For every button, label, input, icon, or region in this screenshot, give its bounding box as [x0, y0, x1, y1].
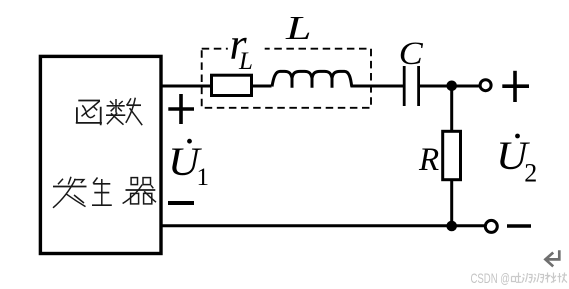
wire: R down to bottom rail	[450, 180, 453, 227]
svg-text:1: 1	[197, 164, 210, 191]
svg-text:L: L	[238, 48, 253, 75]
junction node (top)	[446, 81, 457, 92]
bottom output terminal	[485, 220, 497, 232]
resistor rL body	[212, 75, 252, 95]
dashed box around rL and L	[202, 49, 371, 108]
svg-text:CSDN @: CSDN @	[471, 271, 511, 286]
svg-text:R: R	[418, 142, 439, 178]
wire: inductor to capacitor	[351, 85, 404, 88]
svg-text:L: L	[285, 10, 312, 47]
function generator box	[40, 56, 161, 253]
svg-text:2: 2	[524, 159, 537, 188]
return arrow glyph	[545, 250, 559, 266]
plus sign (left, U1)	[168, 94, 194, 124]
capacitor C plates	[403, 66, 406, 106]
svg-text:C: C	[399, 36, 424, 72]
watermark CJK glyphs (lightweight approximations)	[512, 273, 568, 283]
label 函 (han)	[76, 101, 102, 126]
inductor L coil	[272, 71, 352, 87]
wire: box to r_L resistor (top)	[160, 85, 213, 88]
label 生 (sheng)	[92, 178, 112, 206]
label 数 (shu)	[106, 98, 142, 126]
wire: rL to inductor	[252, 85, 272, 88]
vertical wire: junction down to R	[450, 86, 453, 132]
label 发 (fa)	[53, 177, 87, 208]
bottom rail wire	[160, 224, 485, 227]
minus sign (left, U1)	[168, 201, 194, 205]
top output terminal	[480, 80, 491, 91]
wire: capacitor to junction and top terminal	[420, 85, 479, 88]
white gap behind rL label	[228, 44, 265, 54]
minus sign (right, U2)	[507, 224, 531, 227]
resistor R body	[443, 131, 461, 179]
plus sign (right, U2)	[502, 71, 529, 102]
junction node (bottom)	[446, 221, 457, 232]
label 器 (qi)	[123, 178, 156, 204]
